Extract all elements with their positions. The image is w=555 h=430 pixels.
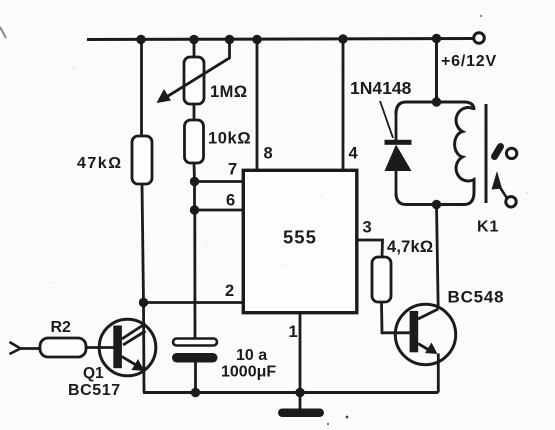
resistor R2 [40,338,86,357]
supply terminal +6/12V [474,33,485,44]
svg-text:+6/12V: +6/12V [441,53,497,70]
junction node pin7 [190,177,199,186]
svg-text:Q1: Q1 [83,365,104,382]
wire to pin 7 [195,180,245,183]
resistor 47k [132,136,152,184]
op-amp U1 555 timer box [243,170,356,312]
wire between 1M and 10k [193,104,196,121]
capacitor C1 top plate [173,339,217,346]
wire Q2 emitter to ground rail [437,354,440,393]
svg-text:3: 3 [363,219,372,237]
junction bottom rail / capacitor [191,388,200,397]
diode D1 1N4148 [385,110,412,196]
transistor Q1 emitter with arrow [122,357,145,372]
transistor Q1 collector double line [122,324,146,346]
wire pin 3 [357,240,383,258]
svg-text:1MΩ: 1MΩ [210,83,248,101]
wire 47k top lead [140,40,143,138]
svg-text:1000μF: 1000μF [221,364,276,381]
relay contact terminal bottom [506,197,516,207]
stray speck top right [480,15,482,17]
relay contact terminal top [506,148,516,158]
wire pin 1 [299,313,302,393]
stray speck bottom center [346,416,349,419]
transistor Q2 collector line [418,309,438,319]
relay K1 core bar [485,104,488,203]
wire bottom ground rail [143,391,438,394]
wire pin 4 [342,39,345,171]
wire 1M pot top lead [193,40,196,59]
wire pin 2 [144,301,245,304]
wire pin 8 [256,40,259,172]
svg-text:47kΩ: 47kΩ [77,155,123,172]
wire capacitor bottom lead [194,363,197,393]
svg-text:BC548: BC548 [448,288,505,307]
stray scan mark top left [0,27,6,38]
svg-text:K1: K1 [477,219,499,236]
wire to pin 6 [195,209,245,212]
svg-text:10kΩ: 10kΩ [208,130,251,148]
svg-text:BC517: BC517 [68,382,121,399]
leader line from label to diode [380,101,393,138]
svg-text:4,7kΩ: 4,7kΩ [387,238,433,256]
junction node pin6 [190,205,199,214]
junction top rail / 1M branch [189,35,198,44]
junction top rail / pot wiper arrow [225,35,234,44]
potentiometer wiper arrow [157,40,230,103]
transistor Q2 emitter with arrow [418,343,438,355]
junction top rail / 47k branch [136,35,145,44]
wire relay/diode top link [396,102,474,114]
ground symbol [278,393,324,418]
wire relay bottom to Q2 collector [437,205,439,310]
resistor 10k [185,120,204,163]
svg-text:555: 555 [283,227,317,248]
svg-text:10 a: 10 a [236,347,267,364]
svg-text:2: 2 [225,282,234,300]
junction bottom rail / pin1 ground [295,388,304,397]
capacitor C1 bottom plate [172,353,218,363]
transistor Q1 base bar [113,326,122,369]
junction node A (pin2 / 47k / Q1 collector) [139,298,148,307]
wire Q1 collector-emitter vertical [142,303,145,393]
svg-text:R2: R2 [51,319,72,336]
junction top rail / relay branch [432,34,441,43]
junction top rail / pin 8 branch [252,35,261,44]
junction relay bottom [432,200,441,209]
svg-text:8: 8 [264,145,273,163]
wire top supply rail [87,39,474,40]
relay armature arrow [492,171,508,199]
svg-text:7: 7 [228,161,237,179]
wire relay branch from rail [435,39,438,103]
relay K1 coil [455,107,474,193]
svg-text:1: 1 [289,323,298,341]
transistor Q2 base bar [410,311,419,352]
svg-text:4: 4 [349,145,359,163]
transistor Q1 circle [99,319,156,376]
resistor 4,7k [372,257,391,302]
junction top rail / pin 4 branch [338,34,347,43]
svg-text:1N4148: 1N4148 [350,78,412,98]
wire relay/diode bottom link [396,192,474,205]
input fork terminal [10,342,41,354]
wire R2 to Q1 base [86,346,114,349]
potentiometer 1M body [184,57,204,104]
wire node pin7 to node pin6 [193,182,196,211]
relay contact stub [495,147,501,157]
svg-text:6: 6 [226,192,235,210]
wire 4,7k to Q2 base [382,302,410,333]
wire 10k bottom lead [193,163,196,182]
transistor Q2 circle BC548 [395,304,455,364]
wire node pin6 down to capacitor [193,210,196,339]
wire 47k bottom lead to node A [142,184,144,303]
junction relay top [432,97,441,106]
stray speck bottom left of ground [327,423,329,425]
